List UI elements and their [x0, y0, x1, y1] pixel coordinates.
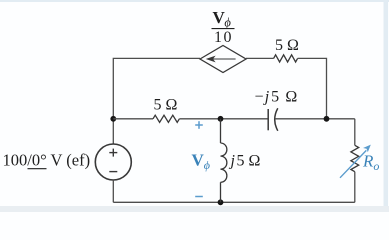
wire from middle resistor to capacitor [179, 118, 267, 120]
minus sign inside source [109, 171, 117, 173]
node A (left middle junction dot) [110, 116, 116, 122]
wire from dependent source right vertex to top 5-ohm resistor [246, 57, 274, 59]
plus sign of V_phi (blue) [195, 121, 203, 129]
wire middle-left from node to 5-ohm resistor [113, 118, 153, 120]
svg-text:5 Ω: 5 Ω [154, 97, 178, 114]
wire Ro bottom to bottom-right corner [354, 172, 356, 203]
resistor 5 ohm (middle) [153, 115, 179, 122]
label 5 ohm (middle) [154, 97, 178, 114]
label 5 ohm (top) [275, 37, 299, 54]
minus sign of V_phi (blue) [195, 196, 203, 198]
svg-text:−j5Ω: −j5Ω [255, 89, 298, 106]
label j5 ohm [229, 153, 261, 170]
label 100 angle 0 V (ef) [3, 151, 91, 170]
inductor j5 ohm (vertical branch) [221, 119, 227, 203]
svg-text:100/0° V (ef): 100/0° V (ef) [3, 151, 91, 170]
label V_phi/10 (controlling value) [212, 8, 235, 46]
wire source bottom to bottom rail [112, 180, 114, 202]
dependent source U1 (diamond, current arrow pointing left) [200, 46, 246, 73]
svg-text:j5 Ω: j5 Ω [229, 153, 261, 170]
resistor Ro (variable) [351, 145, 359, 171]
plus sign inside source [109, 149, 117, 157]
capacitor -j5 ohm [268, 108, 278, 131]
label -j5 ohm [255, 89, 298, 106]
arrow through Ro (variable indicator) [340, 145, 371, 178]
label Ro [362, 152, 379, 174]
wire top-right corner down to middle node [298, 58, 327, 118]
svg-text:10: 10 [214, 29, 233, 46]
resistor 5 ohm (top) [274, 55, 298, 62]
wire top-left: left vertical + top horizontal to dependent source [113, 58, 200, 144]
svg-text:5 Ω: 5 Ω [275, 37, 299, 54]
label V_phi (blue) [192, 151, 211, 173]
node B (inductor top junction dot) [218, 116, 224, 122]
wire right branch down to Ro [354, 119, 356, 146]
wire bottom rail [113, 201, 354, 203]
node C (right middle junction dot) [324, 116, 330, 122]
arrow inside dependent source [207, 57, 235, 62]
voltage source V1 (independent, 100 angle 0) [95, 144, 131, 180]
wire from capacitor to right branch [275, 118, 355, 120]
node D (inductor bottom junction dot) [218, 199, 224, 205]
